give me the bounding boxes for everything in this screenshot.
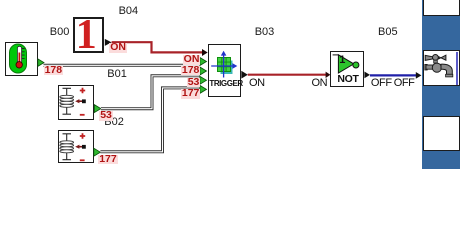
B03 trigger icon cyan shadow [221,61,233,75]
B02 minus [80,159,85,161]
NOT output arrow [364,72,370,79]
faucet box inner purple bar [456,52,458,85]
NOT input arrow [326,72,331,78]
value label 177 at B02 output [98,155,118,165]
block B01 potentiometer [58,85,95,120]
B02 output pin [94,148,101,156]
B02 wiper arrow [79,146,83,148]
value label ON at B04 output [109,43,127,53]
B01 plus [80,88,85,93]
value label ON at trigger input [183,55,201,65]
NOT icon bubble [353,62,359,68]
B00 thermometer tube [17,46,21,65]
trigger input pin 4 green [200,76,207,84]
output column (blue) [422,0,461,169]
value label 178 at trigger input [181,66,201,76]
B04 output arrow [105,39,112,46]
block B00 temperature input [5,42,38,76]
B02 icon potentiometer [63,134,72,160]
B04 constant value 1 [76,20,93,51]
NOT gate digit 1 [339,55,345,66]
NOT gate text [337,74,358,84]
trigger input pin 3 green [200,67,207,75]
wire 53 B01 to trigger [101,76,200,109]
B00 thermometer icon pill [10,44,27,73]
B00 thermometer bulb [16,62,22,68]
faucet icon in output box [425,55,453,77]
output slot box top [423,0,460,16]
output Q1 faucet box [423,50,460,86]
value label 177 at trigger input [181,89,201,99]
block B03 trigger [208,44,241,97]
label B00 [50,27,70,38]
B00 output pin [38,59,44,67]
NOT icon triangle [338,55,353,73]
value label 53 at trigger input [187,78,201,88]
B03 trigger icon green grid [218,58,231,72]
NOT icon stub [333,54,339,56]
wire 177 B02 to trigger [100,88,199,152]
state label OFF after NOT [371,78,392,89]
output slot box bottom [423,116,460,151]
B00 thermometer ticks [22,49,25,59]
trigger input pin 5 green [200,85,207,93]
B03 trigger icon blue right arrow [211,65,234,67]
wire ON B04 to trigger (red) [112,42,203,52]
B02 plus [80,133,85,138]
value label 53 at B01 output [99,111,113,121]
trigger output arrow [241,71,248,79]
block B05 not gate [330,51,364,87]
B01 output pin [94,105,101,113]
B01 minus [80,114,85,116]
B00 thermometer mercury [18,53,20,63]
wire ON trigger to NOT (red) [248,74,326,76]
label B05 [378,27,398,38]
label B01 [107,69,127,80]
state label ON before NOT [312,78,328,89]
wire OFF NOT to output (blue) [370,74,416,76]
trigger input pin 2 green [200,58,207,66]
output input arrow [416,72,422,79]
wire 178 B00 to trigger [44,64,200,67]
TRIGGER text [209,80,242,88]
state label ON after trigger [249,78,265,89]
value label 178 at B00 output [44,66,64,76]
block B02 potentiometer [58,130,94,163]
block B04 constant 1 [73,17,104,53]
B01 wiper arrow [79,100,83,102]
label B03 [255,27,275,38]
label B04 [119,6,139,17]
trigger input arrow top [202,49,208,56]
state label OFF before output [394,78,415,89]
B01 icon potentiometer [63,88,72,114]
label B02 [104,117,124,128]
B03 trigger icon blue up arrow [223,55,225,78]
